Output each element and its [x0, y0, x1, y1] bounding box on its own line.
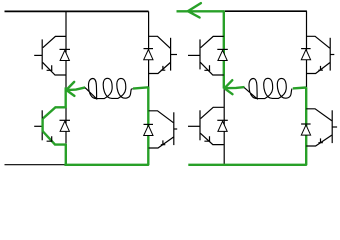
emitter arrowhead [161, 66, 166, 71]
IGBT collector lead [306, 36, 330, 48]
wire: left leg upper (black) [65, 11, 67, 87]
wire: bottom rail green [64, 164, 148, 166]
node C: mid-left green wire to inductor [223, 87, 244, 88]
diode cathode bar [144, 48, 154, 50]
wire: right leg green (through D4 up to node) [147, 87, 149, 165]
transistor Q3b lower-left of right bridge (off) [188, 107, 228, 144]
green bar segment [41, 118, 43, 131]
IGBT gate bar [41, 110, 43, 140]
IGBT collector lead [201, 107, 224, 118]
IGBT gate bar [199, 39, 201, 69]
current arrow on top rail (pointing left) [188, 3, 201, 17]
diode cathode bar [301, 123, 311, 125]
diode triangle [144, 125, 153, 135]
emitter arrowhead [47, 65, 53, 70]
IGBT emitter lead [149, 137, 174, 148]
diode cathode bar [217, 119, 228, 121]
wire: right leg upper (black) [306, 11, 308, 87]
wire: bottom rail green [188, 164, 306, 166]
transistor Q4 lower-right (off, D4 path green behind) [144, 111, 178, 148]
diode triangle [218, 121, 227, 131]
IGBT gate lead [34, 125, 42, 127]
diode triangle [301, 50, 310, 60]
wire: left leg lower green (Q3 emitter to rail) [65, 144, 67, 166]
wire: top rail right (black) [225, 10, 307, 12]
IGBT emitter lead [200, 62, 224, 75]
wire: bottom rail left (black) [5, 164, 65, 166]
IGBT gate bar [170, 38, 172, 71]
emitter arrowhead [204, 65, 210, 70]
wire: left leg mid green (node to Q3 collector) [64, 87, 66, 108]
IGBT collector lead [43, 107, 66, 118]
diode triangle [218, 50, 227, 60]
IGBT gate lead [174, 128, 177, 130]
emitter arrowhead [47, 136, 53, 141]
IGBT gate lead [188, 54, 200, 56]
IGBT gate lead [188, 125, 200, 127]
IGBT gate lead [332, 126, 337, 128]
IGBT gate bar [41, 39, 43, 69]
diode cathode bar [144, 123, 154, 125]
IGBT emitter lead [306, 135, 332, 146]
diode cathode bar [60, 119, 71, 121]
emitter arrowhead [318, 138, 323, 143]
IGBT collector lead [201, 36, 224, 47]
wire: right leg green (through D4 of right bridge) [305, 87, 307, 165]
current arrow at node A (pointing left) [66, 82, 74, 96]
transistor Q2 upper-right (off) [144, 36, 178, 73]
diode triangle [60, 121, 69, 131]
diode triangle [144, 50, 153, 60]
inductor L1 [85, 78, 133, 99]
inductor L2 [244, 78, 292, 99]
IGBT emitter lead [149, 63, 171, 74]
IGBT collector lead [149, 111, 174, 123]
IGBT gate bar [199, 110, 201, 140]
node B: mid-right green wire from inductor [133, 87, 148, 88]
node D: mid-right green wire from inductor [293, 86, 307, 89]
IGBT emitter lead [200, 133, 224, 144]
diode cathode bar [301, 48, 311, 50]
IGBT collector lead [149, 36, 171, 48]
transistor Q3 lower-left (conducting, green) [34, 107, 70, 144]
IGBT gate lead [330, 54, 334, 56]
diode triangle [301, 125, 310, 135]
IGBT gate bar [329, 38, 331, 71]
IGBT gate bar [331, 110, 333, 143]
emitter arrowhead [161, 140, 166, 145]
node A: mid-left green wire to inductor [65, 87, 85, 90]
transistor Q1b upper-left of right bridge (off, D1 conducts) [188, 36, 228, 75]
transistor Q2b upper-right of right bridge (off) [301, 36, 334, 73]
wire: left leg middle black (through D3) [65, 108, 67, 143]
wire: top rail (black) [5, 10, 149, 12]
IGBT gate lead [34, 54, 42, 56]
wire: right leg upper (black) [148, 11, 150, 87]
diode cathode bar [60, 48, 71, 50]
diode cathode bar [217, 48, 228, 50]
transistor Q1 upper-left (off) [34, 36, 70, 75]
diode triangle [60, 50, 69, 60]
wire: top rail green (current out to source) [177, 10, 225, 12]
IGBT collector lead [306, 109, 332, 121]
emitter arrowhead [204, 136, 210, 141]
IGBT collector lead [43, 36, 66, 47]
wire: left leg green (through D1) [223, 11, 225, 88]
wire: left leg lower (black) [223, 89, 225, 166]
IGBT emitter lead [43, 131, 67, 145]
IGBT gate lead [171, 54, 177, 56]
IGBT emitter lead [43, 62, 67, 75]
IGBT gate bar [173, 112, 175, 145]
IGBT emitter lead [306, 63, 330, 74]
emitter arrowhead [318, 66, 323, 71]
current arrow at node C (pointing left) [224, 80, 232, 94]
transistor Q4b lower-right of right bridge (off, diode conducts) [301, 109, 337, 146]
